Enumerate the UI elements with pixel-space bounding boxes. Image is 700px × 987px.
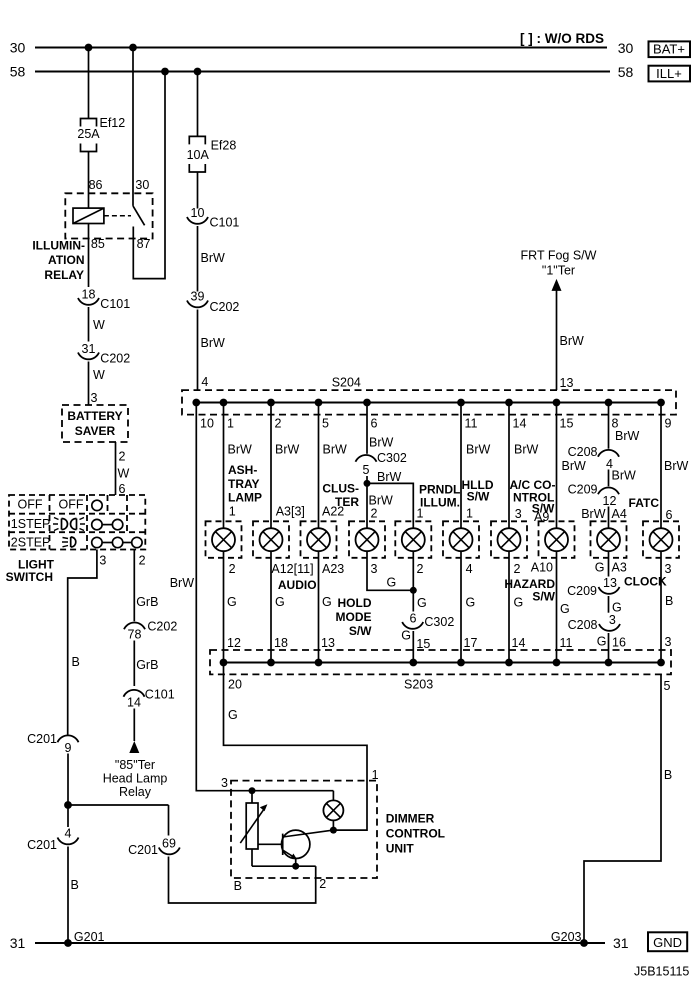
lamp hazard dashed box [539,521,575,558]
wire relay pin 87 to rail 58 [133,72,165,279]
svg-text:14: 14 [512,636,526,650]
svg-text:C202: C202 [210,300,240,314]
svg-text:S/W: S/W [467,490,490,504]
svg-text:ILL+: ILL+ [656,66,682,81]
svg-text:11: 11 [560,636,573,650]
wire BrW C208-4 to C209-12 [609,469,637,487]
svg-text:OFF: OFF [18,498,43,512]
splice S203 bus line [224,662,662,664]
svg-text:BrW: BrW [612,469,637,483]
svg-text:1: 1 [227,417,234,431]
svg-text:C201: C201 [128,843,158,857]
wire C201-9 to G201 [67,754,69,944]
svg-text:RELAY: RELAY [44,268,84,282]
svg-text:W: W [118,467,130,481]
svg-text:BrW: BrW [562,459,587,473]
terminal box BAT+ [649,41,691,57]
wire W C202-31 to battery saver pin 3 [89,362,106,406]
svg-text:2: 2 [119,450,126,464]
relay name ILLUMINATION RELAY [32,238,85,282]
svg-text:FRT Fog S/W: FRT Fog S/W [521,249,597,263]
svg-text:C202: C202 [147,620,177,634]
svg-text:BrW: BrW [275,443,300,457]
junction cluster branch [364,480,371,487]
svg-text:"1"Ter: "1"Ter [542,264,575,278]
svg-text:HOLD: HOLD [338,596,372,610]
svg-text:AUDIO: AUDIO [278,578,317,592]
svg-text:BAT+: BAT+ [653,42,685,57]
splice S203 junction x608 [605,659,613,667]
wire rail30 to relay contact pin 30 [132,48,134,206]
wire light switch pin 2 GrB [134,550,158,622]
relay pin 85 label [91,237,105,251]
svg-text:1: 1 [229,505,236,519]
svg-text:2: 2 [275,417,282,431]
wire S203 pin 20 G to dimmer pin 1 [224,663,368,831]
wire label B lower [71,878,79,892]
svg-text:C201: C201 [27,732,57,746]
wire audio lamp A23 to S203-13 G [319,551,345,662]
junction on rail 58 at relay output [161,68,169,76]
wire rail58 to fuse Ef28 [197,72,199,137]
junction on rail 30 at Ef12 [85,44,93,52]
connector C201 pin 69 [128,837,180,858]
svg-text:BrW: BrW [228,443,253,457]
lamp audio A22 [307,528,330,551]
svg-text:C101: C101 [100,297,130,311]
svg-text:TER: TER [335,495,359,509]
wire S204-9 to FATC lamp [661,403,689,529]
splice S203 junction x413 [409,659,417,667]
wire rail 31 ground [35,942,605,944]
wire dimmer emitter rail to pin 2 [252,866,316,878]
splice S204 junction x661 [657,399,665,407]
wire rail 58 ILL+ [35,71,610,73]
off-page arrow FRT fog switch [552,279,562,291]
wire light switch pin 3 down-left [68,550,97,735]
connector C202 pin 31 [78,342,130,366]
audio name [278,578,317,592]
fuse Ef28 10A [187,136,237,172]
splice S203 junction x318 [315,659,323,667]
svg-text:TRAY: TRAY [228,477,260,491]
svg-text:3: 3 [609,613,616,627]
dimmer pin 2 label [319,877,326,891]
connector C209 pin 13 [567,576,619,598]
svg-text:A4: A4 [612,507,627,521]
svg-text:C208: C208 [568,618,598,632]
svg-text:S203: S203 [404,678,433,692]
svg-text:G: G [228,708,238,722]
wire fuse Ef28 to C101-10 [197,172,199,209]
svg-text:BrW: BrW [170,576,195,590]
wire S204 pin 13 to FRT fog switch [557,291,585,391]
svg-text:16: 16 [612,636,626,650]
svg-text:15: 15 [416,637,430,651]
svg-text:13: 13 [603,576,617,590]
node 31 label left [10,935,26,951]
svg-text:1STEP: 1STEP [11,517,51,531]
svg-text:C201: C201 [27,838,57,852]
svg-text:C101: C101 [210,216,240,230]
lamp clock [597,528,620,551]
wire HLLD pin 4 to S203-17 G [461,551,477,662]
wire rail30 to fuse Ef12 [88,48,90,119]
junction dimmer rheostat top [249,787,256,794]
connector C209 pin 12 [568,483,619,509]
svg-text:C302: C302 [377,451,407,465]
svg-text:Head Lamp: Head Lamp [103,772,168,786]
svg-text:3: 3 [99,553,106,567]
svg-text:2STEP: 2STEP [11,536,51,550]
switch contact circles row2 [92,519,123,529]
svg-text:A3: A3 [612,561,627,575]
parking lamp icon [53,518,85,531]
svg-text:20: 20 [228,678,242,692]
ground junction G201 [64,930,104,947]
off-page arrow to head lamp relay [129,741,139,753]
light switch row OFF labels [18,498,84,512]
svg-text:13: 13 [321,636,335,650]
wire C208-3 to S203-16 G [597,633,626,663]
svg-text:ILLUMIN-: ILLUMIN- [32,238,85,252]
relay pin 86 label [89,178,103,192]
svg-text:85: 85 [91,237,105,251]
svg-text:C209: C209 [568,483,598,497]
wire B C201-69 to dimmer pin 2 [169,857,316,904]
svg-text:C202: C202 [100,352,130,366]
wire B S203-5 to G203 [584,674,672,943]
junction dimmer emitter [292,863,299,870]
node 31 label right [613,935,629,951]
splice S203 junction x223 [220,659,228,667]
relay contact blade [133,206,145,225]
relay actuator link [104,215,131,217]
PRNDL name [419,483,460,510]
lamp HLLD dashed box [443,521,479,558]
svg-text:CLUS-: CLUS- [322,482,359,496]
svg-text:2: 2 [229,562,236,576]
junction on rail 58 at Ef28 [194,68,202,76]
splice S203 junction x661 [657,659,665,667]
svg-text:G: G [322,595,332,609]
relay pin 87 label [137,237,151,251]
node 30 label left [10,40,26,56]
svg-text:BrW: BrW [560,334,585,348]
svg-text:GrB: GrB [136,658,158,672]
svg-text:9: 9 [665,417,672,431]
wire audio lamp A12 to S203-18 G [271,551,314,662]
splice S204 junction x367 [363,399,371,407]
wire G C209-13 to C208-3 [609,596,622,615]
svg-text:69: 69 [162,837,176,851]
svg-text:86: 86 [89,178,103,192]
splice S204 bus line [196,402,661,404]
splice S204 junction x196 [192,399,200,407]
svg-text:78: 78 [128,628,142,642]
FATC name [629,496,660,510]
svg-text:2: 2 [417,562,424,576]
wire relay pin 85 to C101-18 [88,224,90,288]
terminal box ILL+ [649,66,691,82]
svg-text:G203: G203 [551,930,582,944]
A/C control switch name [510,478,556,516]
lamp A/C dashed box [491,521,527,558]
svg-text:6: 6 [410,612,417,626]
light switch dashed table [9,495,145,550]
wire battery saver pin 2 to light switch pin 6 [116,442,130,496]
hazard switch name [504,577,555,604]
svg-text:12: 12 [227,636,241,650]
switch contact circles row3 [92,537,142,547]
connector C202 pin 39 [187,290,239,315]
svg-text:[ ] : W/O RDS: [ ] : W/O RDS [520,31,604,46]
svg-text:A12[11]: A12[11] [271,562,313,576]
node 30 label right [618,40,634,56]
svg-text:4: 4 [65,827,72,841]
svg-text:58: 58 [10,64,26,80]
svg-text:A10: A10 [531,561,553,575]
svg-text:18: 18 [274,636,288,650]
terminal box GND [648,932,687,951]
lamp cluster [356,528,379,551]
connector C302 pin 6 [402,612,454,629]
svg-text:3: 3 [221,776,228,790]
svg-text:BrW: BrW [201,336,226,350]
svg-text:J5B15115: J5B15115 [634,965,689,979]
svg-text:B: B [71,878,79,892]
svg-text:13: 13 [560,376,574,390]
lamp PRNDL dashed box [395,521,431,558]
relay coil [73,208,104,223]
svg-text:W: W [93,368,105,382]
svg-text:UNIT: UNIT [386,842,415,856]
wire ash-tray lamp pin 2 to S203-12 G [224,551,241,662]
battery saver unit [62,405,128,442]
illumination relay dashed box [65,193,152,238]
drawing number J5B15115 [634,965,689,979]
connector C101 pin 14 [124,688,175,710]
relay pin 30 label [135,178,149,192]
svg-text:"85"Ter: "85"Ter [115,758,155,772]
wire S204-8 to C208-4 BrW [609,403,640,449]
fuse Ef12 25A [77,116,125,152]
svg-text:C209: C209 [567,584,597,598]
svg-text:9: 9 [65,741,72,755]
dimmer pin 3 label [221,776,228,790]
svg-text:LAMP: LAMP [228,491,262,505]
connector C201 pin 4 [27,827,78,853]
connector C201 pin 9 [27,732,78,755]
svg-text:31: 31 [10,935,26,951]
wire clock A3 to C209-13 [595,551,627,576]
splice S204 junction x608 [605,399,613,407]
ground junction G203 [551,930,588,947]
wire S204-6 to C302-5 BrW [367,403,394,454]
svg-text:58: 58 [618,64,634,80]
svg-text:PRNDL: PRNDL [419,483,460,497]
lamp cluster dashed box [349,521,385,558]
svg-text:G: G [466,596,476,610]
lamp A/C control [498,528,521,551]
svg-text:G201: G201 [74,930,105,944]
svg-text:6: 6 [119,482,126,496]
lamp hazard [545,528,568,551]
svg-text:BrW: BrW [369,436,394,450]
svg-text:11: 11 [465,417,478,431]
svg-text:3: 3 [665,562,672,576]
wire BrW branch to PRNDL [367,470,413,528]
dimmer control unit dashed box [231,781,377,878]
lamp audio A3 [260,528,283,551]
svg-text:BATTERY: BATTERY [67,409,122,423]
junction dimmer lamp bottom [330,827,337,834]
splice S204 junction x271 [267,399,275,407]
svg-text:SWITCH: SWITCH [6,570,53,584]
wire rail 30 BAT+ [35,47,607,49]
svg-text:ASH-: ASH- [228,463,257,477]
wire S204 pin 10 to dimmer pin 3 BrW [170,403,334,791]
clock name [624,575,667,589]
svg-text:5: 5 [664,679,671,693]
svg-text:G: G [401,629,411,643]
svg-text:B: B [664,768,672,782]
svg-text:31: 31 [613,935,629,951]
lamp ash-tray dashed box [206,521,242,558]
svg-text:BrW: BrW [377,470,402,484]
wire hazard A10 to S203-11 G [531,551,573,662]
light switch row 2STEP label [11,536,51,550]
svg-text:39: 39 [191,290,205,304]
rheostat (variable resistor) [246,791,258,867]
rheostat arrow [240,804,267,843]
svg-text:OFF: OFF [59,498,84,512]
junction PRNDL G [410,587,417,594]
junction on rail 30 at relay contact [129,44,137,52]
PRNDL pin 1 label [417,507,424,521]
switch contact circles row1 [92,500,102,510]
svg-text:BrW: BrW [615,429,640,443]
light switch row 1STEP label [11,517,51,531]
wire C209-12 to clock lamp [581,507,627,529]
wire C302-5 to cluster lamp [367,476,393,528]
light switch name [6,558,55,585]
svg-text:A23: A23 [322,562,344,576]
svg-text:DIMMER: DIMMER [386,812,435,826]
svg-text:30: 30 [135,178,149,192]
svg-text:25A: 25A [77,127,100,141]
wire label B upper [72,655,80,669]
node 58 label left [10,64,26,80]
splice S203 junction x556 [553,659,561,667]
svg-text:C302: C302 [424,615,454,629]
svg-text:2: 2 [319,877,326,891]
svg-text:BrW: BrW [369,494,394,508]
lamp audio A3 dashed box [253,521,289,558]
svg-text:S/W: S/W [532,590,555,604]
svg-text:MODE: MODE [336,610,372,624]
svg-text:Ef12: Ef12 [100,116,126,130]
svg-text:17: 17 [464,636,478,650]
connector C302 pin 5 [356,451,407,477]
svg-text:S/W: S/W [349,624,372,638]
svg-text:C101: C101 [145,688,175,702]
svg-text:5: 5 [363,463,370,477]
wire BrW C101-10 to C202-39 [198,226,226,292]
svg-text:10: 10 [191,206,205,220]
svg-text:1: 1 [466,507,473,521]
wire cluster pin 3 to G junction [367,551,413,590]
svg-text:CONTROL: CONTROL [386,827,445,841]
lamp audio A22 dashed box [301,521,337,558]
lamp HLLD [450,528,473,551]
node 58 label right [618,64,634,80]
svg-text:6: 6 [666,508,673,522]
wire S204-14 to A/C lamp [509,403,539,529]
svg-text:3: 3 [515,507,522,521]
wire FATC pin 3 to S203-3 B [661,551,673,662]
svg-text:18: 18 [82,288,96,302]
svg-text:SAVER: SAVER [75,424,116,438]
svg-text:G: G [387,576,397,590]
splice S204 dashed box [182,376,676,415]
svg-text:GrB: GrB [136,595,158,609]
note W/O RDS [520,31,604,46]
connector C208 pin 4 [568,445,619,471]
svg-text:BrW: BrW [581,507,606,521]
splice S204 junction x223 [220,399,228,407]
svg-text:Relay: Relay [119,785,152,799]
svg-text:G: G [275,595,285,609]
lamp dimmer internal [323,791,343,830]
svg-text:30: 30 [10,40,26,56]
svg-text:14: 14 [127,696,141,710]
connector C101 pin 10 [187,206,239,230]
wire fuse Ef12 to relay pin 86 [88,152,90,209]
svg-text:ATION: ATION [48,253,84,267]
wire C302-6 to S203-15 G [401,629,430,663]
wire W C101-18 to C202-31 [89,307,106,342]
svg-text:3: 3 [665,635,672,649]
svg-text:GND: GND [653,935,682,950]
svg-text:G: G [227,595,237,609]
svg-text:B: B [234,879,242,893]
lamp ash-tray [212,528,235,551]
wire PRNDL pin 2 to C302-6 [413,551,426,611]
splice S203 dashed box [210,650,671,692]
wire BrW C202-39 to splice S204 pin 4 [198,310,226,391]
wire S204-1 to ash-tray lamp [224,403,253,529]
svg-text:30: 30 [618,40,634,56]
splice S204 junction x461 [457,399,465,407]
lamp FATC [650,528,673,551]
svg-text:4: 4 [466,562,473,576]
svg-text:87: 87 [137,237,151,251]
svg-text:2: 2 [514,562,521,576]
svg-text:G: G [597,635,607,649]
svg-text:1: 1 [417,507,424,521]
svg-text:14: 14 [513,417,527,431]
wire GrB C202-78 to C101-14 [134,641,158,687]
svg-text:2: 2 [371,507,378,521]
wire S204-5 to audio lamp A22 [319,403,348,529]
svg-text:G: G [595,561,605,575]
svg-text:A3[3]: A3[3] [276,505,305,519]
wire C101-14 to head lamp relay arrow [133,709,135,742]
svg-text:B: B [72,655,80,669]
svg-text:10A: 10A [187,148,210,162]
svg-text:B: B [665,594,673,608]
